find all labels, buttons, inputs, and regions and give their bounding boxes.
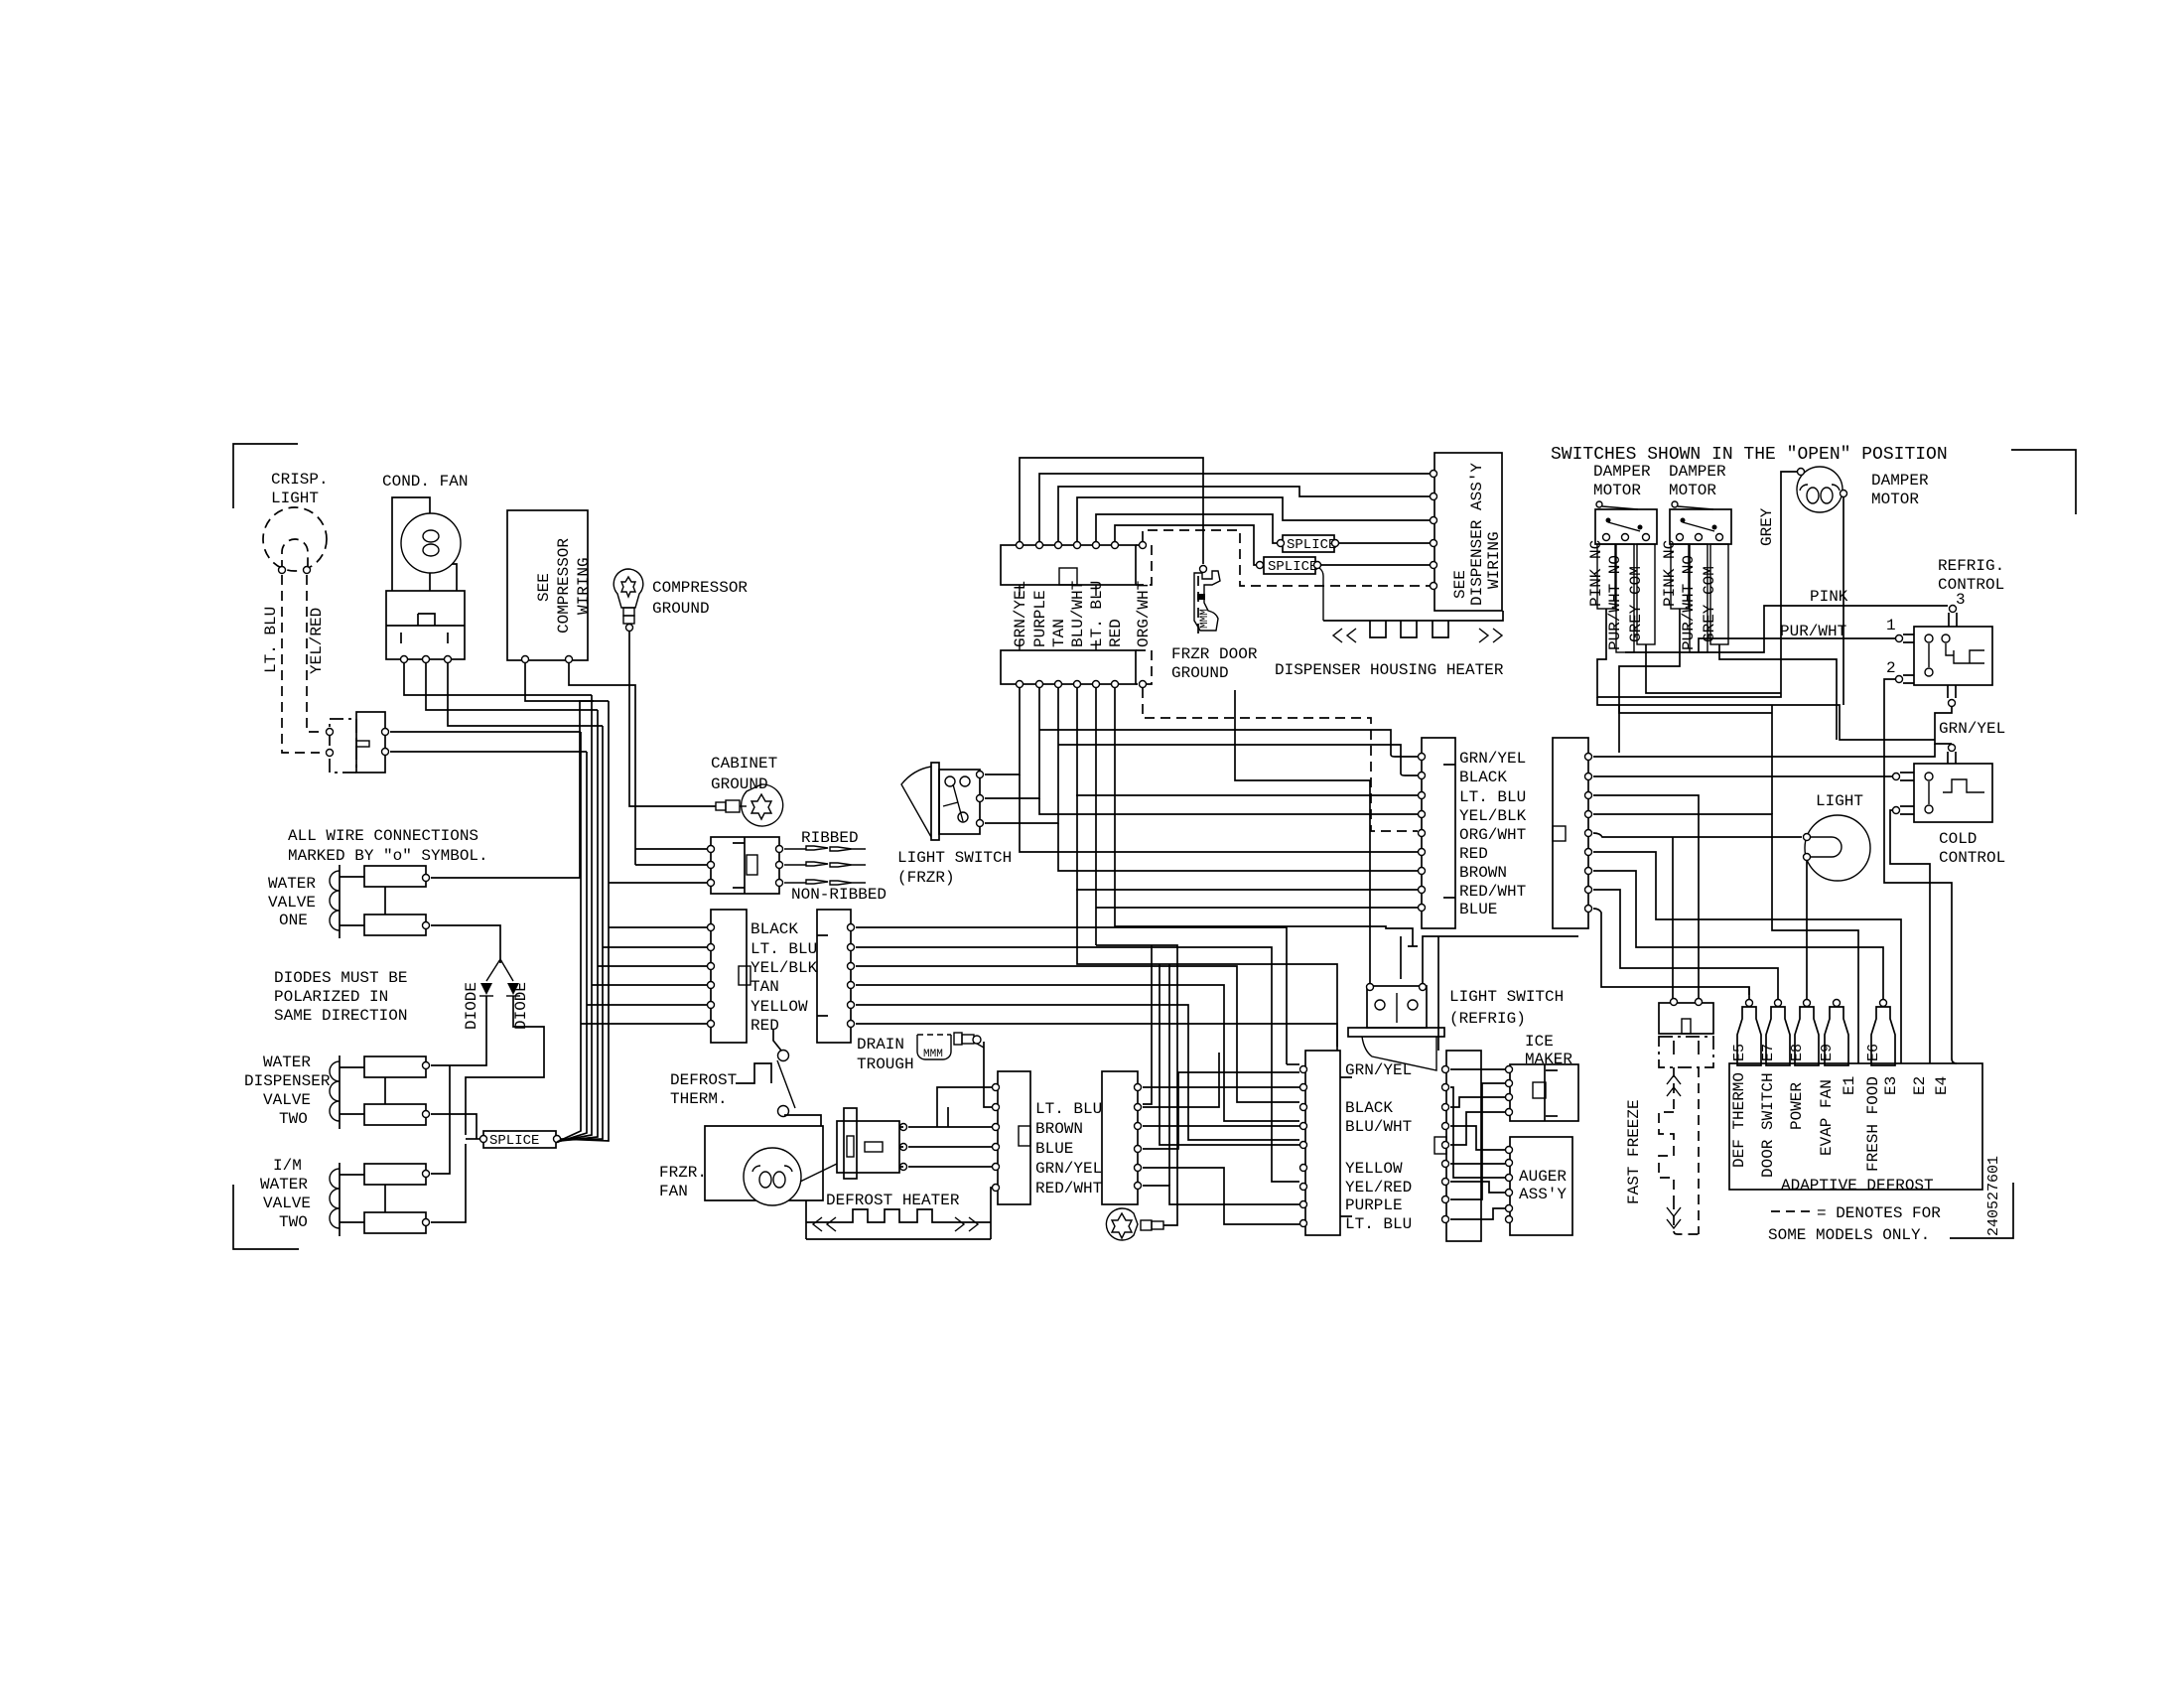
adaptive defrost labels <box>1730 1072 1748 1168</box>
svg-text:BLACK: BLACK <box>1459 769 1507 786</box>
wires feeding connector E0 rows <box>1039 730 1418 757</box>
wire splice2 to dispenser t5 <box>1321 564 1430 566</box>
see compressor wiring box <box>507 510 588 660</box>
svg-text:POLARIZED IN: POLARIZED IN <box>274 988 388 1006</box>
svg-text:DEF THERMO: DEF THERMO <box>1730 1072 1748 1168</box>
svg-text:PUR/WHT: PUR/WHT <box>1780 623 1846 640</box>
wire refrig pin2 to adaptive E4 <box>1884 679 1957 1063</box>
wire valve1 to diode apex <box>431 925 500 963</box>
svg-text:GRN/YEL: GRN/YEL <box>1345 1061 1412 1079</box>
diode pair <box>486 959 513 981</box>
cold pin 2 <box>1893 807 1900 814</box>
svg-text:MARKED BY "o" SYMBOL.: MARKED BY "o" SYMBOL. <box>288 847 488 865</box>
svg-text:EVAP FAN: EVAP FAN <box>1818 1079 1836 1156</box>
diode labels <box>463 982 480 1030</box>
svg-text:DOOR SWITCH: DOOR SWITCH <box>1759 1072 1777 1178</box>
svg-text:REFRIG.: REFRIG. <box>1938 557 2004 575</box>
wire diode right run <box>466 996 544 1135</box>
svg-text:I/M: I/M <box>273 1157 302 1175</box>
svg-text:E3: E3 <box>1882 1076 1900 1095</box>
svg-text:(FRZR): (FRZR) <box>897 869 955 887</box>
svg-text:3: 3 <box>1956 591 1966 609</box>
left wire bundle verticals <box>557 732 581 1142</box>
connector R2 <box>1305 1051 1340 1235</box>
svg-text:NON-RIBBED: NON-RIBBED <box>791 886 887 904</box>
label LT. BLU <box>262 607 280 673</box>
wire splice2 down to heater <box>1319 568 1323 621</box>
damper motor 1 pins <box>1597 544 1615 609</box>
wire E1 grn/yel to cold control jog <box>1593 744 1935 757</box>
svg-text:DEFROST HEATER: DEFROST HEATER <box>826 1192 960 1209</box>
svg-text:PURPLE: PURPLE <box>1345 1196 1403 1214</box>
ice maker box <box>1510 1064 1578 1121</box>
connector T labels <box>1012 581 1029 647</box>
drain trough symbol <box>917 1035 951 1059</box>
refrig control box <box>1914 627 1992 685</box>
svg-text:PINK: PINK <box>1810 588 1848 606</box>
spade E8 <box>1804 1000 1811 1007</box>
wire cond fan t2 <box>426 663 598 710</box>
svg-text:LT. BLU: LT. BLU <box>1459 788 1526 806</box>
wire cold pin2 to adaptive E2 <box>1890 810 1930 1063</box>
svg-text:SPLICE: SPLICE <box>1287 537 1336 553</box>
svg-text:E9: E9 <box>1819 1044 1836 1061</box>
wire T7 dashed org/wht <box>1143 530 1430 586</box>
wire compressor t1 <box>525 663 609 701</box>
compressor ground lug <box>614 569 643 608</box>
denotes note <box>1771 1210 1814 1212</box>
wire d1 COM <box>1646 644 1781 693</box>
corner bracket top-right <box>2011 450 2076 514</box>
svg-text:DISPENSER ASS'Y: DISPENSER ASS'Y <box>1468 463 1486 606</box>
svg-text:VALVE: VALVE <box>263 1091 311 1109</box>
part number <box>1985 1156 2002 1236</box>
wire diode left to dispenser valve <box>431 996 486 1065</box>
connector E0 <box>1422 738 1455 928</box>
wire E1 red/wht to E7 spade <box>1593 890 1778 999</box>
wire cabinet ground <box>629 632 716 806</box>
svg-text:MMM: MMM <box>1199 609 1211 629</box>
svg-text:DAMPER: DAMPER <box>1871 472 1929 490</box>
svg-text:DAMPER: DAMPER <box>1593 463 1651 481</box>
svg-text:GROUND: GROUND <box>711 775 768 793</box>
cond fan terminals <box>401 656 408 663</box>
wire damper3 right <box>1843 497 1844 705</box>
svg-text:LIGHT SWITCH: LIGHT SWITCH <box>897 849 1012 867</box>
ff connector dash-dot box <box>1659 1037 1713 1067</box>
fast freeze label <box>1625 1099 1643 1204</box>
svg-text:GRN/YEL: GRN/YEL <box>1012 581 1029 647</box>
svg-text:SEE: SEE <box>535 573 553 602</box>
wire B7 dashed to E0 <box>1143 688 1418 831</box>
wire LT. BLU dashed <box>282 575 320 753</box>
wire T2 to dispenser t1 <box>1039 474 1430 541</box>
wire E1 blue to E5 spade <box>1593 909 1749 999</box>
svg-text:PURPLE: PURPLE <box>1031 590 1049 647</box>
wires R3 to ice maker <box>1450 1068 1505 1070</box>
svg-text:TAN: TAN <box>751 978 779 996</box>
wire grn/yel bus <box>1597 697 1935 740</box>
svg-text:RED: RED <box>1107 619 1125 647</box>
svg-text:RED: RED <box>1459 845 1488 863</box>
svg-text:YEL/RED: YEL/RED <box>308 608 326 674</box>
svg-text:VALVE: VALVE <box>263 1195 311 1212</box>
water dispenser valve two <box>339 1055 341 1129</box>
wire cond fan t3 <box>448 663 603 726</box>
wire B5 trunk <box>1095 688 1097 945</box>
svg-text:COLD: COLD <box>1939 830 1977 848</box>
light switch refrig <box>1367 986 1427 1028</box>
svg-text:E4: E4 <box>1933 1076 1951 1095</box>
cold control box <box>1914 764 1992 822</box>
svg-text:AUGER: AUGER <box>1519 1168 1567 1186</box>
corner bracket bottom-left <box>233 1185 299 1249</box>
trunk wires from L2 to right field <box>856 927 1287 1064</box>
svg-text:RED/WHT: RED/WHT <box>1459 883 1526 901</box>
svg-text:LT. BLU: LT. BLU <box>1035 1100 1102 1118</box>
svg-text:DEFROST: DEFROST <box>670 1071 737 1089</box>
spade E9 <box>1834 1000 1841 1007</box>
svg-text:SOME MODELS ONLY.: SOME MODELS ONLY. <box>1768 1226 1930 1244</box>
svg-text:E8: E8 <box>1789 1044 1806 1061</box>
svg-text:FRESH FOOD: FRESH FOOD <box>1864 1076 1882 1172</box>
water valve one <box>339 865 341 938</box>
wire refrig switch t1 up <box>1235 690 1370 983</box>
wire drain trough to R1 <box>977 1042 992 1107</box>
damper motor 2 pins <box>1671 544 1689 609</box>
svg-text:MOTOR: MOTOR <box>1871 491 1919 508</box>
svg-text:BLUE: BLUE <box>1035 1140 1073 1158</box>
svg-text:LT. BLU: LT. BLU <box>751 940 817 958</box>
wires M2 to R2 <box>1143 1086 1299 1088</box>
svg-text:PUR/WHT NO: PUR/WHT NO <box>1680 555 1698 650</box>
svg-text:PUR/WHT NO: PUR/WHT NO <box>1606 555 1624 650</box>
svg-text:WIRING: WIRING <box>1485 531 1503 589</box>
svg-text:SAME DIRECTION: SAME DIRECTION <box>274 1007 407 1025</box>
svg-text:GRN/YEL: GRN/YEL <box>1035 1160 1102 1178</box>
crisp light lamp <box>263 507 327 571</box>
adaptive defrost box <box>1729 1063 1982 1190</box>
splice box 2 <box>1264 557 1315 574</box>
svg-text:ALL WIRE CONNECTIONS: ALL WIRE CONNECTIONS <box>288 827 478 845</box>
connector T upper <box>1001 545 1136 585</box>
svg-text:DAMPER: DAMPER <box>1669 463 1726 481</box>
svg-text:TROUGH: TROUGH <box>857 1055 914 1073</box>
wire E1 yel/blk to adaptive E1 <box>1593 814 1858 1063</box>
svg-text:BLU/WHT: BLU/WHT <box>1345 1118 1412 1136</box>
svg-text:BLUE: BLUE <box>1459 901 1497 918</box>
wire splice1 to dispenser t4 <box>1339 542 1430 544</box>
label YEL/RED <box>308 608 326 674</box>
svg-text:LIGHT: LIGHT <box>1816 792 1863 810</box>
connector T label ticks <box>1020 585 1096 650</box>
wire T5 to splice1 <box>1096 514 1279 543</box>
svg-text:CABINET: CABINET <box>711 755 777 773</box>
cond fan terminal box <box>386 591 465 659</box>
svg-text:BLACK: BLACK <box>1345 1099 1393 1117</box>
svg-text:COND. FAN: COND. FAN <box>382 473 468 491</box>
svg-text:THERM.: THERM. <box>670 1090 728 1108</box>
svg-text:1: 1 <box>1886 617 1896 634</box>
svg-text:MOTOR: MOTOR <box>1669 482 1716 499</box>
field verticals above R2 <box>1287 1063 1299 1065</box>
svg-text:GRN/YEL: GRN/YEL <box>1459 750 1526 768</box>
connector E1 <box>1553 738 1588 928</box>
spade E6 <box>1880 1000 1887 1007</box>
wire valve1 top <box>431 701 594 878</box>
spade E7 <box>1775 1000 1782 1007</box>
wire lug up to trunk <box>1096 945 1177 1225</box>
cond fan shroud <box>392 497 457 591</box>
connector R3 <box>1446 1051 1481 1241</box>
svg-text:RIBBED: RIBBED <box>801 829 859 847</box>
wire B3 to frzr switch t3 <box>985 688 1058 823</box>
wires assembly to R1 <box>908 1127 992 1167</box>
wire light t2 to E8 spade <box>1806 861 1808 999</box>
svg-text:ONE: ONE <box>279 912 308 929</box>
svg-text:WIRING: WIRING <box>575 557 593 615</box>
feeds into R3 top <box>1401 936 1438 1051</box>
wire dispenser valve bottom to splice <box>431 1114 477 1139</box>
wire d1 NO pink <box>1625 606 1948 652</box>
svg-text:E2: E2 <box>1911 1076 1929 1095</box>
fast freeze dashed wires <box>1674 1067 1699 1234</box>
svg-text:RED: RED <box>751 1017 779 1035</box>
damper motor 2 switch <box>1670 509 1731 544</box>
wire B4 trunk <box>1077 688 1337 1047</box>
wires R3 to auger <box>1450 1126 1505 1150</box>
svg-text:E6: E6 <box>1865 1044 1882 1061</box>
frzr door ground clip <box>1200 566 1207 573</box>
svg-text:LT. BLU: LT. BLU <box>1088 581 1106 647</box>
svg-text:(REFRIG): (REFRIG) <box>1449 1010 1526 1028</box>
cond fan motor <box>401 513 461 573</box>
svg-text:ORG/WHT: ORG/WHT <box>1459 826 1526 844</box>
wire into splice left <box>466 1138 479 1140</box>
svg-text:DISPENSER: DISPENSER <box>244 1072 331 1090</box>
defrost damper switch (dash-dot) <box>330 719 356 773</box>
wire refrig switch t2 <box>1423 936 1578 983</box>
wire T1 to frzr door ground <box>1020 458 1203 564</box>
svg-text:GRN/YEL: GRN/YEL <box>1939 720 2005 738</box>
svg-text:BLACK: BLACK <box>751 920 798 938</box>
cabinet ground lug <box>716 802 726 810</box>
svg-text:PINK NC: PINK NC <box>1661 540 1679 607</box>
svg-text:BROWN: BROWN <box>1035 1120 1083 1138</box>
svg-text:YEL/BLK: YEL/BLK <box>751 959 818 977</box>
wire B1 to frzr switch t1 <box>985 688 1020 774</box>
svg-text:SPLICE: SPLICE <box>489 1133 539 1149</box>
defrost heater element <box>806 1188 992 1239</box>
svg-text:MMM: MMM <box>923 1049 943 1060</box>
frzr fan shroud <box>705 1126 823 1200</box>
spade E5 <box>1748 987 1750 995</box>
connector L2 <box>817 910 851 1043</box>
wire E1 lt.blu to ff conn <box>1593 795 1699 998</box>
svg-text:COMPRESSOR: COMPRESSOR <box>652 579 748 597</box>
svg-text:E1: E1 <box>1841 1076 1858 1095</box>
svg-text:E7: E7 <box>1760 1044 1777 1061</box>
wire T6 to splice2 <box>1115 525 1260 565</box>
svg-text:ADAPTIVE DEFROST: ADAPTIVE DEFROST <box>1781 1177 1934 1195</box>
svg-text:TWO: TWO <box>279 1213 308 1231</box>
wire B6 trunk <box>1115 688 1418 946</box>
ff connector solid box <box>1659 1003 1713 1034</box>
connector B lower <box>1001 650 1136 684</box>
svg-text:LIGHT SWITCH: LIGHT SWITCH <box>1449 988 1564 1006</box>
svg-text:CONTROL: CONTROL <box>1939 849 2005 867</box>
svg-text:FRZR DOOR: FRZR DOOR <box>1171 645 1258 663</box>
svg-text:E5: E5 <box>1731 1044 1748 1061</box>
corner bracket top-left <box>233 444 298 508</box>
svg-text:GREY COM: GREY COM <box>1701 566 1718 642</box>
grey label <box>1758 507 1776 546</box>
svg-text:DRAIN: DRAIN <box>857 1036 904 1054</box>
evap ground lug <box>1106 1208 1138 1240</box>
wire T4 to dispenser t3 <box>1077 497 1430 541</box>
see dispenser ass'y wiring box <box>1434 453 1502 611</box>
svg-text:DIODES MUST BE: DIODES MUST BE <box>274 969 407 987</box>
svg-text:GREY COM: GREY COM <box>1627 566 1645 642</box>
splice box left <box>483 1131 556 1148</box>
svg-text:2: 2 <box>1886 659 1896 677</box>
wire to ribbed connector <box>635 848 707 850</box>
svg-text:MOTOR: MOTOR <box>1593 482 1641 499</box>
wire E1 red to adaptive E3 <box>1593 852 1901 1063</box>
wire d2 COM <box>1719 644 1837 740</box>
svg-text:DISPENSER HOUSING HEATER: DISPENSER HOUSING HEATER <box>1275 661 1504 679</box>
svg-text:PINK NC: PINK NC <box>1587 540 1605 607</box>
wire bus tap to E1 t1 <box>1618 705 1620 753</box>
svg-text:GROUND: GROUND <box>1171 664 1229 682</box>
svg-text:GREY: GREY <box>1758 507 1776 546</box>
svg-text:WATER: WATER <box>260 1176 308 1194</box>
svg-text:VALVE: VALVE <box>268 894 316 912</box>
cold pin 1 <box>1893 774 1900 780</box>
svg-text:FRZR.: FRZR. <box>659 1164 707 1182</box>
wire d2 NC <box>1619 609 1772 713</box>
svg-text:BLU/WHT: BLU/WHT <box>1069 581 1087 647</box>
light switch frzr <box>931 763 939 840</box>
svg-text:SPLICE: SPLICE <box>1268 559 1317 575</box>
svg-text:WATER: WATER <box>268 875 316 893</box>
svg-text:LT. BLU: LT. BLU <box>262 607 280 673</box>
svg-text:WATER: WATER <box>263 1054 311 1071</box>
damper motor 1 switch <box>1595 509 1657 544</box>
svg-text:BROWN: BROWN <box>1459 864 1507 882</box>
wire d2 NO pur/wht <box>1699 638 1895 652</box>
wire E1 brown to E6 spade <box>1593 871 1883 999</box>
wire fan to heater assembly <box>800 1164 837 1182</box>
refrig bottom pin <box>1948 685 1956 698</box>
svg-text:LT. BLU: LT. BLU <box>1345 1215 1412 1233</box>
svg-text:YEL/BLK: YEL/BLK <box>1459 807 1527 825</box>
svg-text:YELLOW: YELLOW <box>751 998 808 1016</box>
svg-text:GROUND: GROUND <box>652 600 710 618</box>
grn/yel jog <box>1935 707 1952 744</box>
dispenser housing heater <box>1323 611 1503 621</box>
svg-text:TAN: TAN <box>1050 619 1068 647</box>
svg-text:FAST FREEZE: FAST FREEZE <box>1625 1099 1643 1204</box>
svg-text:YELLOW: YELLOW <box>1345 1160 1403 1178</box>
svg-text:RED/WHT: RED/WHT <box>1035 1180 1102 1197</box>
wire switch to bundle <box>390 731 581 733</box>
svg-text:ASS'Y: ASS'Y <box>1519 1186 1567 1203</box>
wire taps to connector L1 <box>609 926 707 928</box>
svg-text:ICE: ICE <box>1525 1033 1554 1051</box>
svg-text:SWITCHES SHOWN IN THE "OPEN" P: SWITCHES SHOWN IN THE "OPEN" POSITION <box>1551 445 1948 465</box>
wire B2 to frzr switch t2 <box>985 688 1039 798</box>
svg-text:MAKER: MAKER <box>1525 1051 1572 1068</box>
frzr fan motor <box>744 1148 801 1205</box>
svg-text:CONTROL: CONTROL <box>1938 576 2004 594</box>
svg-text:LIGHT: LIGHT <box>271 490 319 507</box>
svg-text:POWER: POWER <box>1788 1082 1806 1130</box>
defrost thermostat <box>736 1063 771 1083</box>
splice box 1 <box>1283 535 1334 552</box>
wire E1 org/wht to light t1 and ff conn <box>1593 833 1802 998</box>
ribbed connector box <box>711 837 779 894</box>
wire bus tap to E1 t4 row <box>1771 705 1773 814</box>
wire i/m valve bottom <box>431 1144 466 1222</box>
svg-text:YEL/RED: YEL/RED <box>1345 1179 1412 1196</box>
defrost heater cutout assembly <box>844 1108 857 1179</box>
wire YEL/RED dashed <box>307 575 325 732</box>
wire compressor t2 <box>569 663 635 865</box>
svg-text:DIODE: DIODE <box>463 982 480 1030</box>
svg-text:COMPRESSOR: COMPRESSOR <box>555 538 573 633</box>
svg-text:ORG/WHT: ORG/WHT <box>1135 581 1153 647</box>
part number bracket <box>1950 1183 2013 1238</box>
svg-text:= DENOTES FOR: = DENOTES FOR <box>1817 1204 1941 1222</box>
svg-text:240527601: 240527601 <box>1985 1156 2002 1236</box>
auger ass'y box <box>1510 1137 1572 1235</box>
wire i/m valve top <box>431 1065 450 1174</box>
wire E1 black to cold pin1 <box>1593 775 1896 777</box>
wire damper3 left <box>1597 472 1797 697</box>
connector L1 <box>711 910 747 1043</box>
connector R1 <box>998 1071 1030 1204</box>
damper motor 3 <box>1797 467 1843 512</box>
svg-text:SEE: SEE <box>1451 570 1469 599</box>
svg-text:CRISP.: CRISP. <box>271 471 329 489</box>
wire T3 to dispenser t2 <box>1058 487 1430 541</box>
compressor box terminals <box>522 656 529 663</box>
i/m water valve two <box>339 1163 341 1236</box>
light bulb <box>1805 815 1870 881</box>
wire cond fan t1 <box>404 663 592 695</box>
svg-text:TWO: TWO <box>279 1110 308 1128</box>
svg-text:FAN: FAN <box>659 1183 688 1200</box>
connector M2 <box>1102 1071 1138 1204</box>
ribbed crimp wires <box>784 846 866 885</box>
